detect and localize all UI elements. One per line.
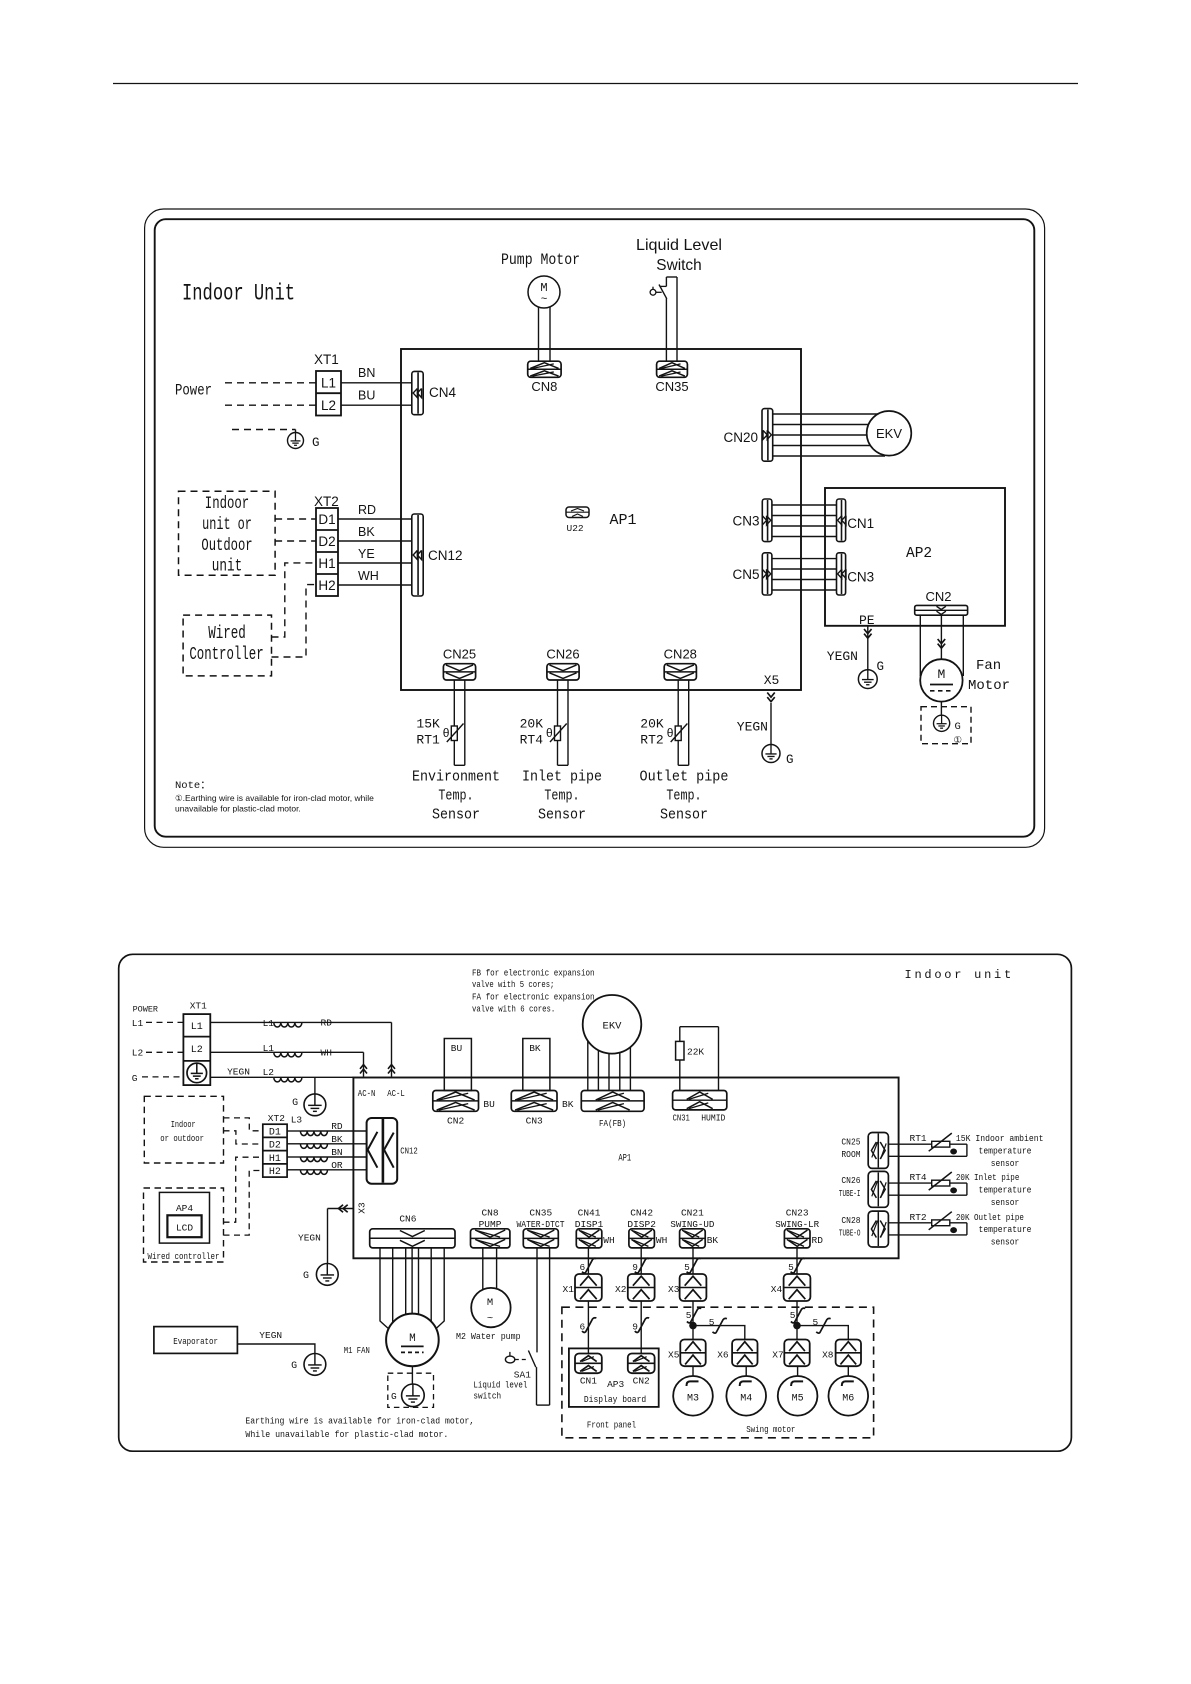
svg-text:Indoor: Indoor xyxy=(205,494,249,514)
svg-text:Indoor unit: Indoor unit xyxy=(905,968,1014,982)
svg-text:20K: 20K xyxy=(520,717,544,732)
svg-text:CN1: CN1 xyxy=(580,1376,597,1387)
svg-text:FA for electronic expansion: FA for electronic expansion xyxy=(472,991,595,1002)
svg-text:CN4: CN4 xyxy=(429,385,456,400)
svg-text:CN25: CN25 xyxy=(841,1137,860,1147)
svg-text:M: M xyxy=(540,281,547,295)
svg-text:RD: RD xyxy=(331,1121,343,1132)
svg-text:CN23: CN23 xyxy=(786,1208,809,1219)
svg-text:M3: M3 xyxy=(687,1394,699,1405)
svg-text:CN26: CN26 xyxy=(841,1176,860,1186)
svg-text:G: G xyxy=(132,1073,138,1084)
svg-text:CN8: CN8 xyxy=(481,1208,498,1219)
svg-text:L2: L2 xyxy=(321,398,336,413)
svg-text:Sensor: Sensor xyxy=(660,807,708,824)
svg-text:CN21: CN21 xyxy=(681,1208,704,1219)
svg-text:6: 6 xyxy=(579,1262,585,1273)
svg-text:Display board: Display board xyxy=(584,1394,646,1405)
svg-text:D2: D2 xyxy=(269,1141,281,1152)
svg-text:X2: X2 xyxy=(615,1284,627,1295)
svg-text:Pump Motor: Pump Motor xyxy=(501,251,580,269)
svg-text:D2: D2 xyxy=(318,534,335,549)
svg-text:EKV: EKV xyxy=(603,1021,623,1033)
svg-text:X1: X1 xyxy=(563,1284,575,1295)
svg-text:RT2: RT2 xyxy=(640,733,663,748)
svg-text:XT2: XT2 xyxy=(314,494,339,509)
svg-text:X7: X7 xyxy=(772,1350,783,1361)
svg-text:BN: BN xyxy=(358,366,375,380)
svg-text:θ: θ xyxy=(443,726,450,740)
svg-text:Motor: Motor xyxy=(968,678,1010,694)
svg-text:20K Inlet pipe: 20K Inlet pipe xyxy=(956,1172,1020,1183)
svg-text:U22: U22 xyxy=(567,523,584,534)
svg-text:unit: unit xyxy=(212,557,242,577)
svg-text:valve with 5 cores;: valve with 5 cores; xyxy=(472,979,554,990)
svg-text:Front panel: Front panel xyxy=(587,1420,636,1431)
svg-text:BU: BU xyxy=(483,1099,495,1110)
svg-text:M4: M4 xyxy=(740,1394,752,1405)
svg-text:Liquid level: Liquid level xyxy=(473,1379,527,1390)
svg-text:or outdoor: or outdoor xyxy=(160,1133,204,1144)
svg-text:15K Indoor ambient: 15K Indoor ambient xyxy=(956,1133,1044,1144)
svg-text:M2 Water pump: M2 Water pump xyxy=(456,1331,521,1342)
svg-text:θ: θ xyxy=(546,726,553,740)
svg-text:H1: H1 xyxy=(269,1154,281,1165)
svg-text:Liquid Level: Liquid Level xyxy=(636,237,722,254)
svg-text:L3: L3 xyxy=(291,1114,303,1125)
svg-text:FB for electronic expansion: FB for electronic expansion xyxy=(472,967,595,978)
svg-text:AP1: AP1 xyxy=(610,512,637,529)
svg-text:valve with 6 cores.: valve with 6 cores. xyxy=(472,1003,555,1014)
svg-text:CN28: CN28 xyxy=(664,647,697,662)
svg-text:CN5: CN5 xyxy=(732,567,759,582)
svg-text:AP3: AP3 xyxy=(607,1379,624,1390)
svg-text:15K: 15K xyxy=(416,717,440,732)
svg-text:temperature: temperature xyxy=(979,1184,1032,1195)
svg-text:~: ~ xyxy=(487,1313,493,1325)
svg-text:G: G xyxy=(955,721,961,733)
svg-text:SWING-UD: SWING-UD xyxy=(670,1219,714,1230)
svg-text:M: M xyxy=(487,1297,493,1309)
svg-text:CN28: CN28 xyxy=(841,1216,860,1226)
svg-text:D1: D1 xyxy=(318,512,335,527)
svg-text:G: G xyxy=(786,753,794,767)
svg-text:6: 6 xyxy=(579,1322,585,1333)
svg-text:CN35: CN35 xyxy=(529,1208,552,1219)
svg-text:WH: WH xyxy=(656,1235,667,1246)
svg-text:AC-L: AC-L xyxy=(387,1088,405,1099)
svg-text:9: 9 xyxy=(632,1322,638,1333)
svg-text:YEGN: YEGN xyxy=(737,720,768,735)
svg-text:θ: θ xyxy=(667,726,674,740)
svg-text:Swing motor: Swing motor xyxy=(746,1424,795,1435)
svg-text:CN3: CN3 xyxy=(526,1116,543,1127)
svg-text:TUBE-I: TUBE-I xyxy=(839,1189,861,1199)
svg-text:G: G xyxy=(303,1271,309,1282)
svg-text:CN31: CN31 xyxy=(673,1113,690,1124)
svg-text:POWER: POWER xyxy=(133,1005,158,1015)
svg-text:OR: OR xyxy=(331,1160,343,1171)
svg-text:SWING-LR: SWING-LR xyxy=(775,1219,819,1230)
svg-text:Outlet pipe: Outlet pipe xyxy=(640,768,729,785)
svg-text:RT1: RT1 xyxy=(910,1133,927,1144)
svg-text:BK: BK xyxy=(562,1099,574,1110)
svg-text:CN3: CN3 xyxy=(847,570,874,585)
svg-text:M6: M6 xyxy=(842,1394,854,1405)
svg-text:Evaporator: Evaporator xyxy=(173,1336,218,1347)
svg-text:RT1: RT1 xyxy=(416,733,440,748)
svg-text:HUMID: HUMID xyxy=(701,1113,725,1124)
svg-text:YE: YE xyxy=(358,547,375,561)
svg-text:G: G xyxy=(312,436,320,450)
svg-text:G: G xyxy=(292,1098,298,1109)
svg-text:AP2: AP2 xyxy=(906,546,932,562)
svg-text:CN6: CN6 xyxy=(399,1214,416,1225)
svg-text:M: M xyxy=(937,667,945,682)
svg-text:Earthing wire is available for: Earthing wire is available for iron-clad… xyxy=(245,1415,474,1426)
svg-text:CN25: CN25 xyxy=(443,647,476,662)
svg-text:5: 5 xyxy=(686,1310,692,1321)
svg-text:G: G xyxy=(877,660,885,674)
svg-text:X3: X3 xyxy=(668,1284,680,1295)
svg-text:AP1: AP1 xyxy=(618,1154,631,1165)
svg-text:BK: BK xyxy=(707,1235,719,1246)
svg-text:Temp.: Temp. xyxy=(666,787,701,804)
svg-text:FA(FB): FA(FB) xyxy=(599,1118,626,1129)
svg-text:RD: RD xyxy=(358,503,376,517)
svg-text:PUMP: PUMP xyxy=(479,1219,502,1230)
svg-text:CN42: CN42 xyxy=(630,1208,653,1219)
svg-text:AP4: AP4 xyxy=(176,1203,193,1214)
svg-text:CN35: CN35 xyxy=(655,379,688,394)
svg-text:XT1: XT1 xyxy=(190,1001,207,1012)
svg-text:DISP2: DISP2 xyxy=(627,1219,656,1230)
svg-text:RD: RD xyxy=(812,1235,824,1246)
svg-text:L1: L1 xyxy=(263,1043,275,1054)
svg-text:22K: 22K xyxy=(687,1047,704,1058)
svg-text:CN26: CN26 xyxy=(546,647,579,662)
svg-text:20K Outlet pipe: 20K Outlet pipe xyxy=(956,1212,1024,1223)
svg-text:RD: RD xyxy=(321,1017,333,1028)
svg-text:Sensor: Sensor xyxy=(538,807,586,824)
svg-text:BN: BN xyxy=(331,1147,342,1158)
svg-text:H2: H2 xyxy=(269,1167,281,1178)
svg-text:RT2: RT2 xyxy=(910,1212,927,1223)
svg-text:X4: X4 xyxy=(771,1284,783,1295)
svg-text:Outdoor: Outdoor xyxy=(201,536,252,556)
svg-text:~: ~ xyxy=(541,294,548,306)
svg-text:YEGN: YEGN xyxy=(298,1233,321,1244)
svg-text:sensor: sensor xyxy=(991,1158,1020,1169)
svg-text:Controller: Controller xyxy=(189,645,263,665)
svg-text:WH: WH xyxy=(321,1047,332,1058)
svg-text:temperature: temperature xyxy=(979,1146,1032,1157)
svg-text:5: 5 xyxy=(684,1262,690,1273)
svg-text:Indoor Unit: Indoor Unit xyxy=(182,281,295,308)
svg-text:While unavailable for plastic-: While unavailable for plastic-clad motor… xyxy=(245,1429,448,1440)
svg-text:WH: WH xyxy=(358,569,379,583)
svg-text:X5: X5 xyxy=(668,1350,680,1361)
svg-text:BU: BU xyxy=(358,389,375,403)
svg-text:Wired controller: Wired controller xyxy=(148,1251,220,1262)
svg-text:YEGN: YEGN xyxy=(227,1066,250,1077)
svg-text:Switch: Switch xyxy=(656,257,701,274)
svg-text:sensor: sensor xyxy=(991,1197,1020,1208)
svg-text:L2: L2 xyxy=(191,1045,203,1056)
svg-text:G: G xyxy=(291,1361,297,1372)
svg-text:CN2: CN2 xyxy=(925,589,951,604)
svg-text:L1: L1 xyxy=(191,1022,203,1033)
svg-text:YEGN: YEGN xyxy=(259,1330,282,1341)
svg-text:L2: L2 xyxy=(263,1067,275,1078)
svg-text:M5: M5 xyxy=(792,1394,804,1405)
svg-text:CN2: CN2 xyxy=(447,1116,464,1127)
svg-text:Fan: Fan xyxy=(976,658,1001,674)
svg-text:L2: L2 xyxy=(132,1048,144,1059)
svg-text:unit or: unit or xyxy=(202,515,252,535)
svg-text:9: 9 xyxy=(632,1262,638,1273)
svg-text:Inlet pipe: Inlet pipe xyxy=(522,768,602,785)
svg-text:RT4: RT4 xyxy=(520,733,544,748)
svg-text:CN12: CN12 xyxy=(428,548,463,563)
svg-text:CN20: CN20 xyxy=(723,430,758,445)
svg-text:5: 5 xyxy=(790,1310,796,1321)
svg-text:AC-N: AC-N xyxy=(358,1088,376,1099)
svg-text:D1: D1 xyxy=(269,1127,281,1138)
svg-text:M: M xyxy=(409,1333,416,1345)
svg-text:XT2: XT2 xyxy=(268,1113,285,1124)
svg-text:Sensor: Sensor xyxy=(432,807,480,824)
svg-text:Power: Power xyxy=(175,382,212,400)
svg-text:X3: X3 xyxy=(357,1202,368,1214)
svg-text:M1 FAN: M1 FAN xyxy=(344,1345,370,1356)
svg-text:Wired: Wired xyxy=(208,624,246,644)
svg-text:L1: L1 xyxy=(321,376,336,391)
svg-text:H1: H1 xyxy=(318,556,335,571)
svg-text:unavailable for plastic-clad m: unavailable for plastic-clad motor. xyxy=(175,804,301,814)
svg-text:①: ① xyxy=(954,735,963,746)
svg-text:L1: L1 xyxy=(263,1018,275,1029)
svg-text:X6: X6 xyxy=(717,1350,729,1361)
svg-text:X5: X5 xyxy=(764,673,780,688)
svg-text:Environment: Environment xyxy=(412,768,500,785)
svg-text:RT4: RT4 xyxy=(910,1172,927,1183)
svg-text:ROOM: ROOM xyxy=(841,1150,860,1160)
svg-text:X8: X8 xyxy=(822,1350,834,1361)
svg-text:PE: PE xyxy=(859,613,875,628)
svg-text:WH: WH xyxy=(603,1235,614,1246)
svg-text:5: 5 xyxy=(812,1317,818,1328)
svg-text:H2: H2 xyxy=(318,578,335,593)
svg-text:20K: 20K xyxy=(640,717,664,732)
svg-text:TUBE-O: TUBE-O xyxy=(839,1229,861,1239)
svg-text:Note：: Note： xyxy=(175,780,211,792)
svg-text:YEGN: YEGN xyxy=(827,649,858,664)
svg-text:BK: BK xyxy=(331,1134,343,1145)
svg-text:DISP1: DISP1 xyxy=(575,1219,604,1230)
svg-text:L1: L1 xyxy=(132,1018,144,1029)
svg-text:Temp.: Temp. xyxy=(438,787,473,804)
svg-text:LCD: LCD xyxy=(176,1223,193,1234)
svg-text:BU: BU xyxy=(451,1043,463,1054)
svg-text:CN12: CN12 xyxy=(400,1145,418,1156)
svg-text:CN3: CN3 xyxy=(732,514,759,529)
svg-text:①.Earthing wire is available f: ①.Earthing wire is available for iron-cl… xyxy=(175,793,374,803)
svg-text:switch: switch xyxy=(473,1390,501,1401)
svg-text:BK: BK xyxy=(358,525,375,539)
svg-text:Temp.: Temp. xyxy=(544,787,579,804)
svg-text:CN1: CN1 xyxy=(847,516,874,531)
svg-text:BK: BK xyxy=(529,1043,541,1054)
svg-text:5: 5 xyxy=(709,1317,715,1328)
svg-text:CN41: CN41 xyxy=(578,1208,601,1219)
svg-text:CN2: CN2 xyxy=(633,1376,650,1387)
svg-text:XT1: XT1 xyxy=(314,352,339,367)
svg-text:G: G xyxy=(391,1391,397,1402)
svg-text:WATER-DTCT: WATER-DTCT xyxy=(517,1219,565,1230)
svg-text:EKV: EKV xyxy=(876,426,902,441)
svg-text:5: 5 xyxy=(788,1262,794,1273)
svg-text:Indoor: Indoor xyxy=(171,1119,196,1130)
svg-text:CN8: CN8 xyxy=(531,379,557,394)
svg-text:sensor: sensor xyxy=(991,1237,1020,1248)
svg-text:temperature: temperature xyxy=(979,1224,1032,1235)
